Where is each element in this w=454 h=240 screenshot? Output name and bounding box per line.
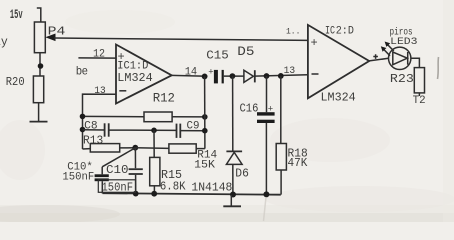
wire C8 to C9 rail [109, 129, 176, 131]
node pin13/C8 junction [80, 127, 86, 133]
svg-text:C15: C15 [206, 49, 229, 63]
svg-text:D6: D6 [235, 168, 249, 181]
node R12/central junction [202, 114, 208, 120]
wire R12 right lead [172, 116, 205, 118]
node output/C15 junction [202, 74, 208, 80]
svg-text:R12: R12 [153, 92, 175, 106]
resistor R14 [169, 144, 196, 153]
wire D5 to IC2 - input [255, 75, 308, 76]
wire R14 right lead [196, 148, 205, 150]
svg-text:R20: R20 [6, 75, 25, 89]
bottom rail wire [103, 193, 281, 195]
wire R15 top lead [153, 130, 155, 157]
faint smudge below C16 node [264, 197, 267, 221]
node R13/C10 junction [132, 145, 138, 151]
svg-text:LM324: LM324 [117, 72, 152, 85]
resistor R20 [33, 76, 43, 103]
wire IC2 output to LED [369, 58, 388, 61]
svg-text:C16: C16 [240, 103, 259, 116]
wire C10 bottom lead [101, 181, 103, 193]
capacitor C10 electrolytic [101, 167, 103, 175]
wire input be to pin 12 [78, 57, 116, 59]
right edge scan mark [438, 57, 439, 79]
wire C15 to D5 [224, 75, 244, 77]
svg-text:150nF: 150nF [62, 171, 94, 183]
node D6/ground junction [230, 192, 236, 198]
svg-text:C10: C10 [106, 164, 129, 177]
svg-text:LED3: LED3 [390, 37, 417, 48]
wire diagonal from junction to C10 [102, 148, 135, 167]
wire pin 13 [83, 94, 117, 149]
svg-text:C8: C8 [84, 121, 98, 133]
wire R15 bottom lead [153, 186, 155, 194]
node pin13/R12 junction [80, 114, 86, 120]
wire R13 left lead [83, 148, 91, 150]
light scan blotches [270, 118, 390, 162]
wire junction to R14 [135, 147, 169, 150]
wire C9 right [180, 130, 204, 132]
svg-text:2:D: 2:D [336, 26, 355, 38]
wire C10 film bottom lead [135, 175, 137, 194]
wire IC1 output pin 14 [172, 74, 208, 77]
potentiometer P4 [34, 22, 45, 53]
svg-text:150nF: 150nF [102, 182, 134, 195]
wire R13 right lead [120, 147, 136, 149]
wire R18 top lead [280, 76, 282, 144]
ground symbol [230, 195, 232, 206]
wire C16 bottom lead [265, 123, 267, 194]
wire P4 bottom lead [39, 53, 41, 76]
svg-text:ly: ly [0, 36, 8, 49]
wire R18 bottom lead [280, 170, 282, 195]
wire P4 top lead [37, 8, 41, 22]
wire D6 top lead [232, 76, 234, 151]
resistor R13 [90, 144, 119, 152]
svg-text:15v: 15v [10, 8, 23, 22]
node C16 bottom junction [263, 191, 269, 197]
P4 wiper arrow [45, 34, 55, 42]
svg-text:1N4148: 1N4148 [191, 182, 232, 195]
svg-text:+: + [311, 36, 318, 50]
svg-text:14: 14 [185, 67, 198, 79]
svg-text:+: + [208, 68, 213, 78]
svg-text:IC: IC [325, 26, 335, 38]
node C10 film/rail junction [133, 191, 139, 197]
central vertical wire [204, 76, 206, 148]
svg-text:R23: R23 [390, 72, 414, 86]
svg-text:LM324: LM324 [321, 92, 356, 105]
node C9/central junction [202, 128, 208, 134]
svg-text:IC1:D: IC1:D [117, 61, 148, 73]
node C16 junction [264, 73, 270, 79]
node R15 tap junction [151, 128, 157, 134]
wire D6 bottom lead [232, 164, 234, 194]
svg-text:6.8K: 6.8K [160, 181, 186, 194]
svg-text:T2: T2 [413, 95, 426, 107]
svg-text:12: 12 [93, 49, 105, 61]
wire LED to R23 [411, 58, 420, 67]
node R15/rail junction [151, 191, 157, 197]
svg-text:1..: 1.. [286, 28, 300, 37]
capacitor C10 film [134, 148, 136, 169]
svg-text:D5: D5 [237, 45, 254, 59]
plus tick on output wire [373, 54, 378, 59]
resistor R18 [276, 144, 286, 171]
svg-text:15K: 15K [194, 159, 215, 171]
node P4/R20 junction [38, 63, 44, 69]
resistor R12 [144, 112, 172, 122]
wire wiper to IC2 + input [54, 38, 308, 40]
wire C16 top lead [266, 76, 268, 112]
diode D6 [226, 150, 242, 152]
wire C8 rail left [83, 129, 105, 131]
resistor R15 [150, 157, 160, 185]
svg-text:be: be [76, 64, 88, 78]
box around 150nF [98, 180, 135, 193]
wire R20 bottom lead [38, 103, 40, 121]
wire R12 rail from pin13 line [83, 115, 145, 117]
node C15/D5/D6 junction [230, 73, 236, 79]
svg-text:13: 13 [94, 85, 105, 97]
svg-text:47K: 47K [288, 156, 309, 170]
LED emission arrows [387, 44, 394, 51]
node R18 junction [278, 73, 284, 79]
op-amp U1 IC1:D [116, 45, 172, 104]
ground terminal bar under R20 [30, 121, 48, 123]
svg-text:13: 13 [284, 65, 296, 77]
op-amp U2 IC2:D [308, 25, 369, 98]
wire R23 bottom lead T2 [418, 93, 420, 96]
